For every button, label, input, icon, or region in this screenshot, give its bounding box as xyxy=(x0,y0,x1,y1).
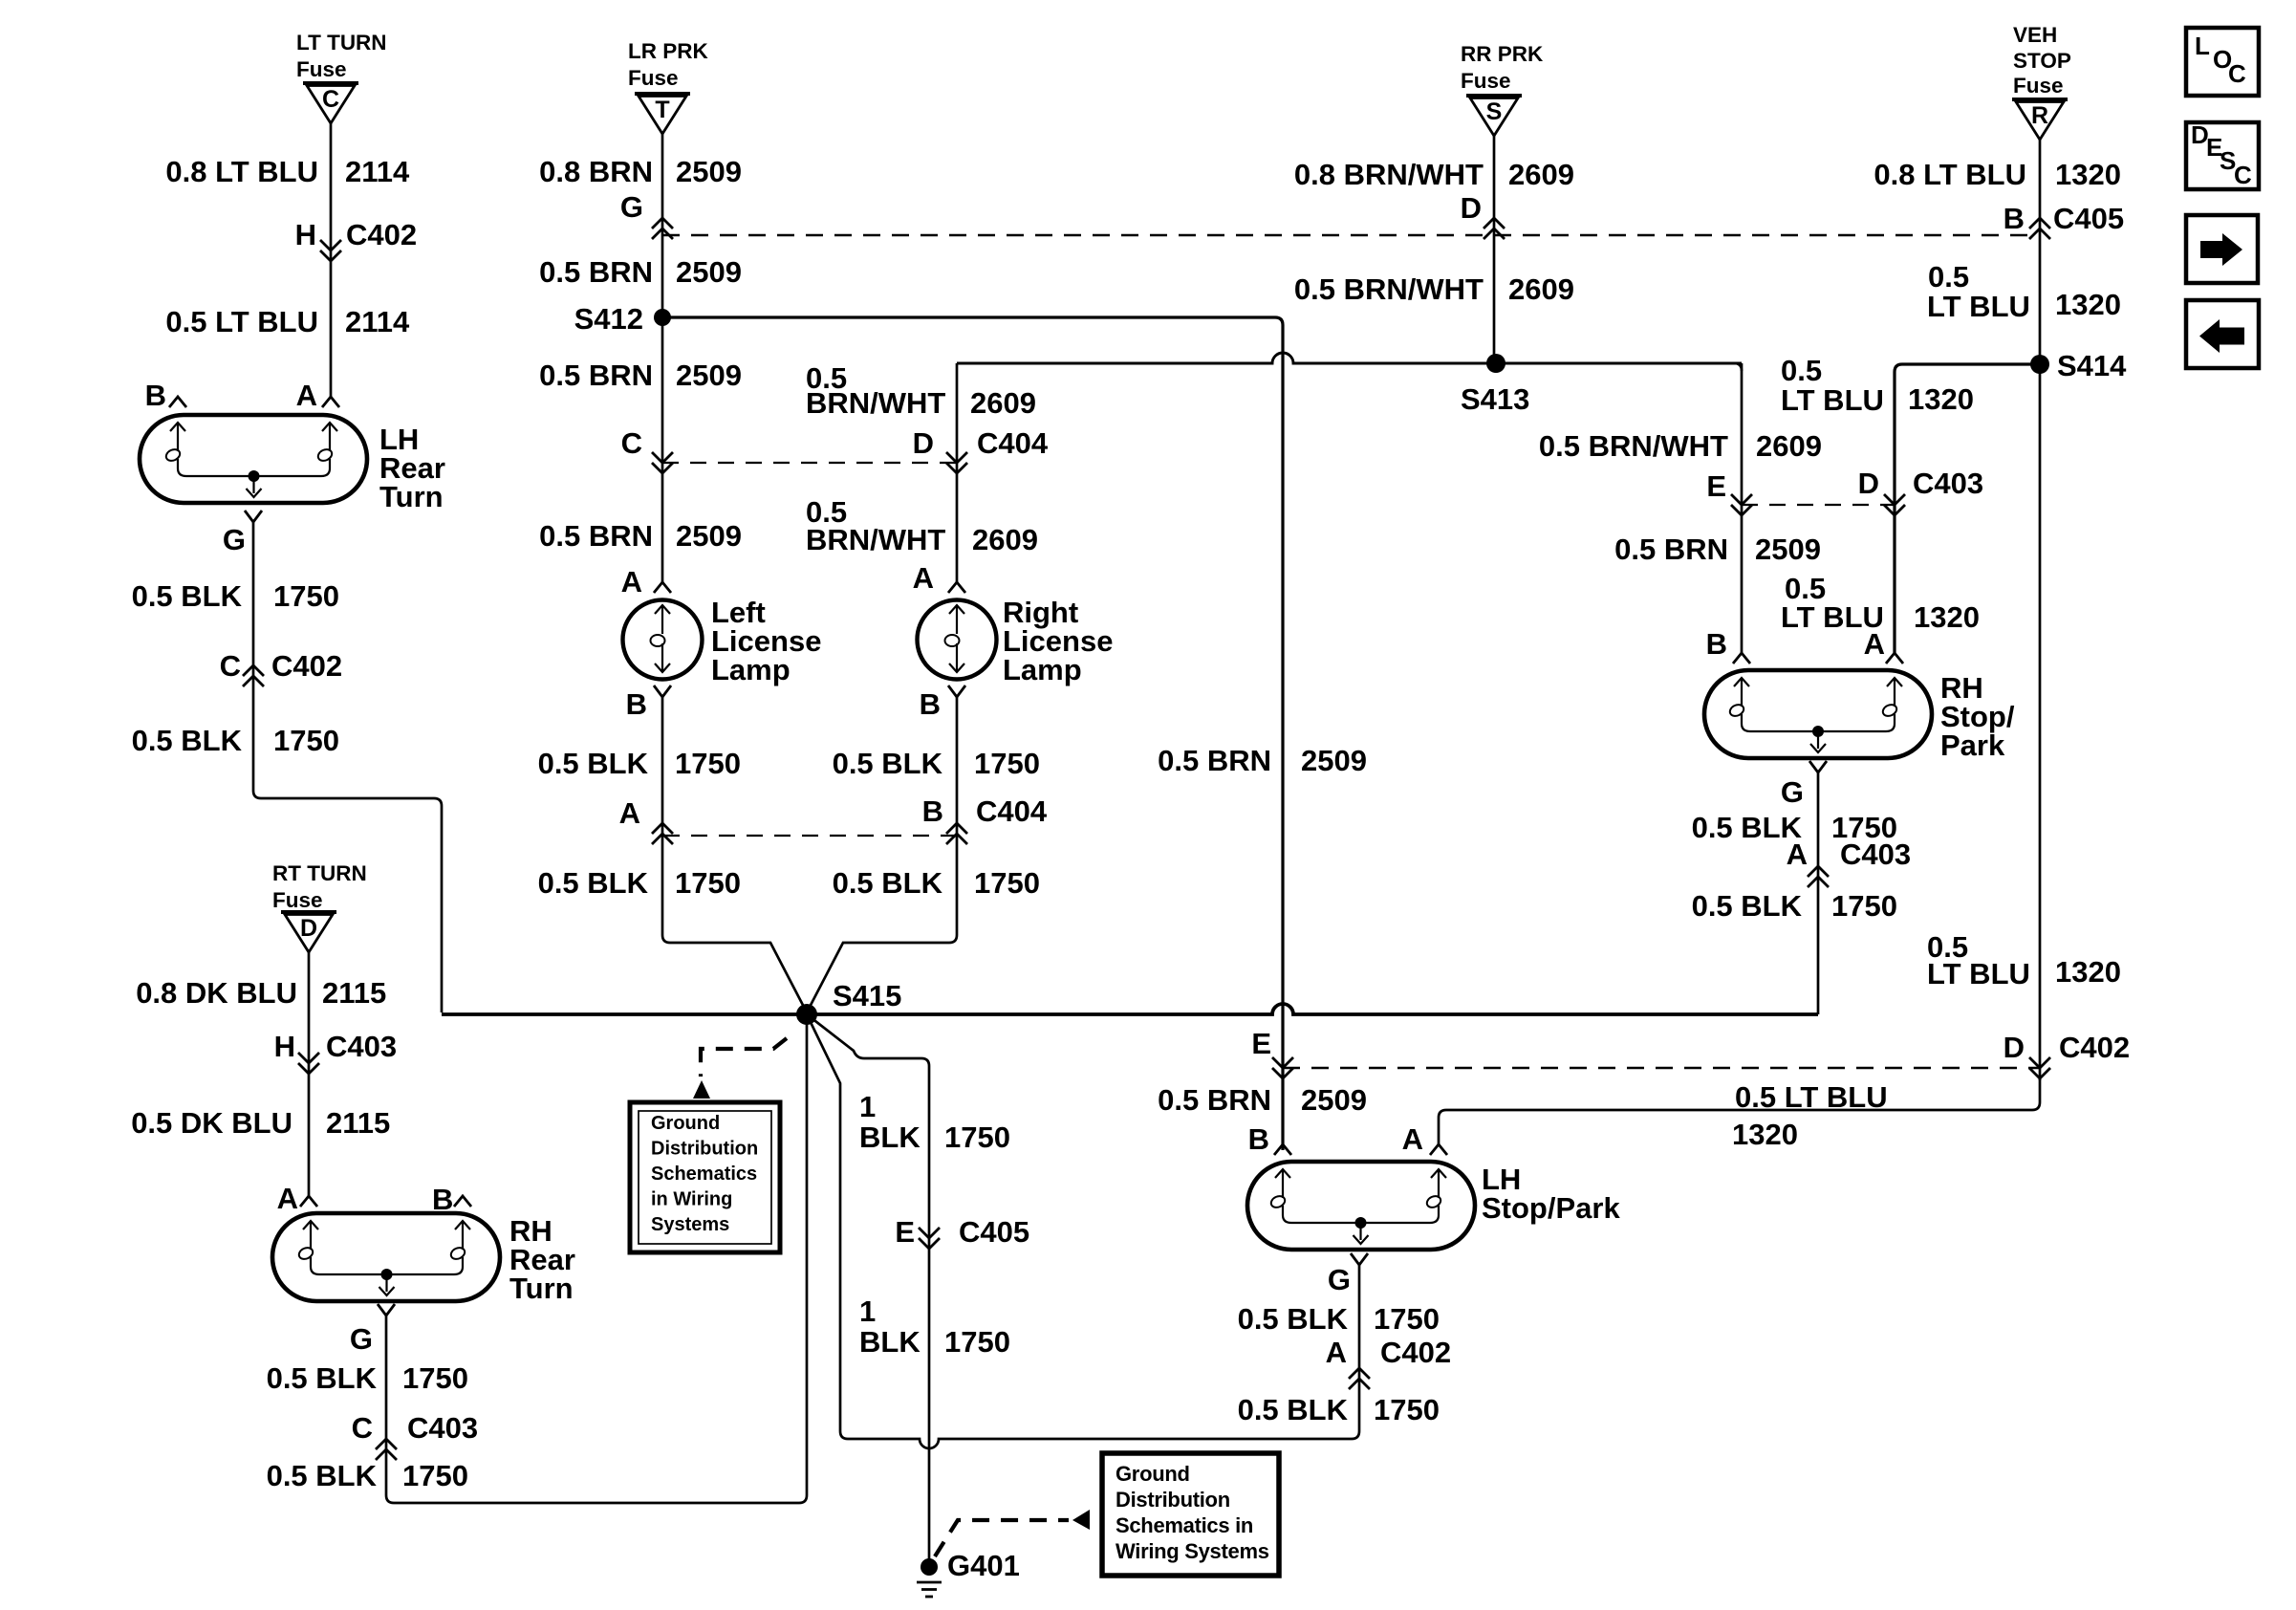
svg-text:C: C xyxy=(621,426,642,460)
connector C403 pin D (arrows) xyxy=(1858,467,1984,515)
svg-text:Turn: Turn xyxy=(509,1272,574,1305)
lamp RH Stop/Park xyxy=(1704,627,2015,809)
svg-text:A: A xyxy=(277,1182,298,1215)
label 0.5 BLK 1750 (lower) xyxy=(132,724,339,757)
svg-text:0.5 BRN: 0.5 BRN xyxy=(539,255,653,289)
wire 0.5 BLK 1750 (LH Rear Turn ground to S415) xyxy=(253,522,442,1012)
svg-text:RR PRK: RR PRK xyxy=(1461,42,1544,66)
label 0.8 LT BLU 1320 xyxy=(1874,158,2121,191)
svg-text:C403: C403 xyxy=(407,1411,478,1445)
svg-text:E: E xyxy=(1251,1027,1271,1060)
label 0.5 LT BLU 1320 (above S414) xyxy=(1927,260,2121,323)
svg-text:0.5 BLK: 0.5 BLK xyxy=(538,747,649,780)
svg-text:R: R xyxy=(2031,102,2048,129)
svg-text:0.5 BRN/WHT: 0.5 BRN/WHT xyxy=(1294,272,1484,306)
svg-text:2609: 2609 xyxy=(970,386,1036,420)
svg-text:Lamp: Lamp xyxy=(1003,653,1082,686)
svg-text:D: D xyxy=(300,915,317,942)
svg-text:2114: 2114 xyxy=(345,305,410,338)
label 0.5 LT BLU 1320 (S414 down) xyxy=(1927,930,2121,990)
svg-text:1320: 1320 xyxy=(2055,288,2121,321)
label 0.8 BRN 2509 xyxy=(539,155,742,188)
svg-text:0.8 BRN: 0.8 BRN xyxy=(539,155,653,188)
wire 1 BLK 1750 (S415 to G401) xyxy=(807,1014,929,1563)
label 0.5 BRN/WHT 2609 (below C405) xyxy=(1294,272,1574,306)
svg-text:1750: 1750 xyxy=(944,1325,1010,1359)
splice S415 bus line xyxy=(442,1004,1818,1014)
label 0.5 LT BLU 2114 xyxy=(165,305,410,338)
svg-text:H: H xyxy=(274,1030,295,1063)
svg-text:Fuse: Fuse xyxy=(1461,69,1511,93)
svg-text:Wiring Systems: Wiring Systems xyxy=(1116,1539,1269,1563)
label 0.5 BLK 1750 (upper) xyxy=(132,579,339,613)
label 0.5 BLK 1750 (RH SP upper) xyxy=(1692,811,1897,844)
svg-text:0.5 BRN: 0.5 BRN xyxy=(1158,1083,1271,1117)
lamp RH Rear Turn xyxy=(272,1182,575,1356)
svg-text:C: C xyxy=(322,86,339,113)
label 0.5 BLK 1750 (RH Rear lower) xyxy=(267,1459,468,1492)
svg-text:C402: C402 xyxy=(1380,1336,1451,1369)
label 1 BLK 1750 (upper) xyxy=(859,1090,1010,1154)
label 0.5 BLK 1750 (LH SP lower) xyxy=(1238,1393,1440,1426)
connector C404 pin D (arrows) xyxy=(913,426,1049,473)
svg-text:Ground: Ground xyxy=(651,1113,720,1134)
svg-text:B: B xyxy=(2004,202,2025,235)
svg-text:2509: 2509 xyxy=(676,359,742,392)
svg-text:H: H xyxy=(295,218,316,251)
svg-text:0.5 LT BLU: 0.5 LT BLU xyxy=(165,305,318,338)
svg-text:C403: C403 xyxy=(326,1030,397,1063)
label 0.5 DK BLU 2115 xyxy=(131,1106,390,1140)
svg-text:2115: 2115 xyxy=(322,976,386,1010)
svg-text:Fuse: Fuse xyxy=(2013,74,2064,98)
svg-text:A: A xyxy=(1326,1336,1347,1369)
svg-text:Stop/Park: Stop/Park xyxy=(1482,1191,1620,1225)
svg-text:C403: C403 xyxy=(1840,838,1911,871)
svg-text:1320: 1320 xyxy=(1732,1118,1798,1151)
svg-text:A: A xyxy=(913,561,934,595)
svg-text:in Wiring: in Wiring xyxy=(651,1189,732,1210)
label 0.8 BRN/WHT 2609 xyxy=(1294,158,1574,191)
connector C405 (dashed) xyxy=(662,234,2040,236)
svg-text:A: A xyxy=(1402,1122,1423,1156)
svg-text:G: G xyxy=(620,190,643,224)
svg-text:0.5 BLK: 0.5 BLK xyxy=(833,866,943,900)
svg-text:2609: 2609 xyxy=(1508,272,1574,306)
label 1 BLK 1750 (lower) xyxy=(859,1295,1010,1359)
label 0.5 BRN 2509 (below S412) xyxy=(539,359,742,392)
svg-text:D: D xyxy=(1858,467,1879,500)
svg-text:D: D xyxy=(913,426,934,460)
svg-text:1750: 1750 xyxy=(944,1120,1010,1154)
connector C405 pin D (arrows) xyxy=(1461,191,1505,239)
svg-text:B: B xyxy=(922,794,943,828)
fuse RR PRK (S) xyxy=(1461,42,1544,136)
connector C404 pin A (arrows) xyxy=(619,796,673,844)
svg-text:0.5 BRN: 0.5 BRN xyxy=(1158,744,1271,777)
connector C402 pin C (in-line arrows) xyxy=(220,649,343,686)
svg-text:2509: 2509 xyxy=(676,519,742,553)
svg-text:L: L xyxy=(2195,32,2210,60)
svg-text:1750: 1750 xyxy=(974,866,1040,900)
svg-text:E: E xyxy=(1706,469,1726,503)
label 0.5 LT BLU 1320 (bottom run) xyxy=(1732,1080,1888,1151)
svg-text:G: G xyxy=(1328,1263,1351,1296)
svg-text:1320: 1320 xyxy=(1908,382,1974,416)
svg-text:1750: 1750 xyxy=(402,1361,468,1395)
note box Ground Distribution Schematics in Wiring Systems (right) xyxy=(1102,1453,1279,1576)
label 0.5 LT BLU 1320 (branch lower) xyxy=(1781,572,1980,634)
svg-text:LT BLU: LT BLU xyxy=(1927,957,2030,990)
svg-text:Schematics in: Schematics in xyxy=(1116,1513,1253,1537)
label 0.5 BRN/WHT 2609 (to pin B) xyxy=(1539,429,1822,463)
svg-text:0.5 BLK: 0.5 BLK xyxy=(1238,1302,1349,1336)
svg-text:1750: 1750 xyxy=(1831,889,1897,923)
label 0.5 BLK 1750 (left license upper) xyxy=(538,747,741,780)
svg-text:0.5 BLK: 0.5 BLK xyxy=(132,579,243,613)
svg-text:Systems: Systems xyxy=(651,1214,729,1235)
svg-text:0.5 BRN: 0.5 BRN xyxy=(539,519,653,553)
label 0.5 BLK 1750 (RH SP lower) xyxy=(1692,889,1897,923)
wire 0.5 BLK 1750 (Left License ground to S415) xyxy=(662,697,807,1012)
svg-text:G401: G401 xyxy=(947,1549,1020,1582)
svg-text:Fuse: Fuse xyxy=(628,66,679,90)
svg-text:C: C xyxy=(352,1411,373,1445)
svg-text:A: A xyxy=(1864,627,1885,661)
svg-text:Schematics: Schematics xyxy=(651,1164,757,1185)
connector C405 pin G (arrows) xyxy=(620,190,673,239)
svg-text:B: B xyxy=(145,379,166,412)
wire S414 branch to RH Stop/Park pin A (0.5 LT BLU 1320) xyxy=(1895,364,2040,653)
svg-text:RT TURN: RT TURN xyxy=(272,861,367,885)
svg-text:S413: S413 xyxy=(1461,382,1529,416)
connector C403 pin H (in-line arrows) xyxy=(274,1030,398,1074)
connector C405 pin B (arrows) xyxy=(2004,202,2125,239)
label 0.5 BLK 1750 (left license lower) xyxy=(538,866,741,900)
svg-text:LT TURN: LT TURN xyxy=(296,31,387,54)
label 0.5 BRN 2509 (above LH Stop/Park) xyxy=(1158,1083,1367,1117)
connector C404 lower (dashed) xyxy=(663,835,957,837)
svg-text:Ground: Ground xyxy=(1116,1462,1190,1486)
connector C404 pin B (arrows) xyxy=(922,794,1048,844)
splice S412 xyxy=(574,302,671,336)
svg-text:0.5 BRN: 0.5 BRN xyxy=(539,359,653,392)
note box Ground Distribution Schematics in Wiring Systems (left) xyxy=(630,1102,780,1252)
fuse LR PRK (T) xyxy=(628,39,709,134)
splice S415 xyxy=(796,979,901,1025)
wire S413 branch line xyxy=(957,353,1742,363)
wire 0.5 LT BLU 1320 (S414 down to C402) xyxy=(2039,364,2042,1080)
svg-text:0.5 BLK: 0.5 BLK xyxy=(267,1361,378,1395)
svg-text:Distribution: Distribution xyxy=(651,1139,758,1160)
svg-text:C404: C404 xyxy=(976,794,1048,828)
connector C405 pin E (arrows) xyxy=(895,1215,1029,1249)
label 0.5 LT BLU 1320 (branch upper) xyxy=(1781,354,1974,417)
svg-text:B: B xyxy=(1248,1122,1269,1156)
connector C402 pin E (arrows) xyxy=(1251,1027,1293,1078)
svg-text:A: A xyxy=(1787,838,1808,871)
label 0.8 LT BLU 2114 xyxy=(165,155,410,188)
svg-text:D: D xyxy=(1461,191,1482,225)
wire 0.5 BLK 1750 (RH Stop/Park ground to S415) xyxy=(1817,772,1820,1014)
svg-text:C402: C402 xyxy=(2059,1031,2130,1064)
ground G401 xyxy=(917,1549,1020,1597)
svg-text:C: C xyxy=(220,649,241,683)
svg-text:0.8 LT BLU: 0.8 LT BLU xyxy=(1874,158,2026,191)
svg-text:LT BLU: LT BLU xyxy=(1927,290,2030,323)
connector C402 pin A (arrows) xyxy=(1326,1336,1452,1389)
svg-text:VEH: VEH xyxy=(2013,23,2057,47)
svg-text:C405: C405 xyxy=(2053,202,2124,235)
icon box LOC xyxy=(2186,28,2259,96)
svg-text:1750: 1750 xyxy=(402,1459,468,1492)
svg-text:0.5 LT BLU: 0.5 LT BLU xyxy=(1735,1080,1888,1114)
svg-text:BRN/WHT: BRN/WHT xyxy=(806,386,945,420)
connector C403 pin E (arrows) xyxy=(1706,469,1752,515)
lamp LH Rear Turn xyxy=(140,379,445,556)
svg-text:Park: Park xyxy=(1940,729,2005,762)
svg-text:C: C xyxy=(2234,161,2252,189)
svg-text:0.5 BLK: 0.5 BLK xyxy=(132,724,243,757)
connector C402 pin H (in-line arrows) xyxy=(295,218,418,261)
svg-text:C404: C404 xyxy=(977,426,1049,460)
svg-text:D: D xyxy=(2004,1031,2025,1064)
svg-text:B: B xyxy=(626,687,647,721)
svg-text:0.5 BLK: 0.5 BLK xyxy=(833,747,943,780)
svg-text:2609: 2609 xyxy=(1508,158,1574,191)
svg-text:0.5 BRN: 0.5 BRN xyxy=(1614,533,1728,566)
label 0.5 BLK 1750 (right license lower) xyxy=(833,866,1040,900)
label 0.5 BRN/WHT 2609 (lower) xyxy=(806,495,1038,556)
lamp LH Stop/Park xyxy=(1247,1122,1620,1296)
wire 0.5 BLK 1750 (RH Rear Turn ground to S415) xyxy=(386,1014,807,1503)
fuse RT TURN (D) xyxy=(281,912,336,952)
label 0.5 BRN/WHT 2609 (upper) xyxy=(806,361,1036,420)
svg-text:0.5 BLK: 0.5 BLK xyxy=(267,1459,378,1492)
connector C403 pin C (in-line arrows) xyxy=(352,1411,479,1460)
svg-text:0.5 BLK: 0.5 BLK xyxy=(1238,1393,1349,1426)
label 0.5 BRN 2509 (above Left License) xyxy=(539,519,742,553)
svg-text:0.8 DK BLU: 0.8 DK BLU xyxy=(136,976,297,1010)
wire 0.5 BRN/WHT 2609 (S413 to RH Stop/Park pin B) xyxy=(1734,363,1742,653)
svg-text:0.5: 0.5 xyxy=(1781,354,1822,387)
wire 0.8 DK BLU 2115 (RT TURN fuse to C403) xyxy=(308,952,311,1196)
svg-text:2115: 2115 xyxy=(326,1106,390,1140)
svg-text:1750: 1750 xyxy=(1374,1393,1440,1426)
svg-text:S414: S414 xyxy=(2057,349,2127,382)
svg-text:2509: 2509 xyxy=(676,155,742,188)
svg-text:0.8 BRN/WHT: 0.8 BRN/WHT xyxy=(1294,158,1484,191)
svg-text:STOP: STOP xyxy=(2013,49,2071,73)
svg-text:C403: C403 xyxy=(1913,467,1983,500)
wire S412 feed to LH Stop/Park (0.5 BRN 2509) xyxy=(662,317,1283,1150)
svg-text:LT BLU: LT BLU xyxy=(1781,383,1884,417)
svg-text:1750: 1750 xyxy=(675,866,741,900)
svg-text:0.5: 0.5 xyxy=(1928,260,1969,294)
label 0.5 BRN 2509 (to pin B lower) xyxy=(1614,533,1821,566)
svg-text:1320: 1320 xyxy=(2055,955,2121,989)
svg-text:2509: 2509 xyxy=(1301,744,1367,777)
connector C402 (dashed) xyxy=(1283,1067,2040,1069)
wire 0.8/0.5 BRN/WHT 2609 (RR PRK fuse to S413) xyxy=(1493,136,1496,363)
svg-text:2609: 2609 xyxy=(972,523,1038,556)
wire 0.5 BRN/WHT 2609 (S413 to Right License Lamp) xyxy=(956,363,959,582)
svg-text:Distribution: Distribution xyxy=(1116,1488,1230,1512)
splice S414 xyxy=(2030,349,2127,382)
svg-text:BRN/WHT: BRN/WHT xyxy=(806,523,945,556)
icon box DESC xyxy=(2186,120,2259,189)
svg-text:G: G xyxy=(350,1322,373,1356)
svg-text:2609: 2609 xyxy=(1756,429,1822,463)
label 0.5 BRN 2509 (long feed wire) xyxy=(1158,744,1367,777)
svg-text:1320: 1320 xyxy=(2055,158,2121,191)
connector C402 pin D (arrows) xyxy=(2004,1031,2131,1078)
svg-text:2509: 2509 xyxy=(1301,1083,1367,1117)
svg-text:C402: C402 xyxy=(346,218,417,251)
svg-text:G: G xyxy=(223,523,246,556)
label 0.5 BRN 2509 (above S412) xyxy=(539,255,742,289)
svg-text:B: B xyxy=(1706,627,1727,661)
wire 0.8 LT BLU 2114 (LT TURN fuse to C402) xyxy=(330,123,333,397)
svg-text:2509: 2509 xyxy=(676,255,742,289)
svg-text:B: B xyxy=(432,1183,453,1216)
svg-text:2114: 2114 xyxy=(345,155,410,188)
svg-text:Fuse: Fuse xyxy=(272,888,323,912)
svg-text:A: A xyxy=(296,379,317,412)
svg-text:2509: 2509 xyxy=(1755,533,1821,566)
svg-text:C402: C402 xyxy=(271,649,342,683)
svg-text:S: S xyxy=(1486,98,1503,125)
svg-text:0.5 BLK: 0.5 BLK xyxy=(1692,889,1803,923)
connector C403 (dashed) xyxy=(1742,504,1895,506)
svg-text:1750: 1750 xyxy=(273,579,339,613)
label 0.5 BLK 1750 (RH Rear upper) xyxy=(267,1361,468,1395)
svg-text:1320: 1320 xyxy=(1914,600,1980,634)
label RT TURN Fuse xyxy=(272,861,367,912)
svg-text:Fuse: Fuse xyxy=(296,57,347,81)
svg-text:LR PRK: LR PRK xyxy=(628,39,709,63)
svg-text:E: E xyxy=(895,1215,915,1249)
label 0.5 BLK 1750 (right license upper) xyxy=(833,747,1040,780)
fuse LT TURN (C) xyxy=(296,31,387,123)
svg-text:S415: S415 xyxy=(833,979,901,1012)
svg-text:A: A xyxy=(621,565,642,598)
leader dashed arrow (G401 to note box) xyxy=(935,1510,1090,1556)
leader dashed arrow (S415 to note box) xyxy=(693,1038,787,1099)
connector C404 upper (dashed) xyxy=(662,462,957,464)
svg-text:1750: 1750 xyxy=(675,747,741,780)
wire 0.5 BLK 1750 (Right License ground to S415) xyxy=(807,697,957,1012)
svg-text:T: T xyxy=(655,97,669,123)
svg-text:1750: 1750 xyxy=(1374,1302,1440,1336)
svg-text:B: B xyxy=(920,687,941,721)
svg-text:S412: S412 xyxy=(574,302,643,336)
svg-text:0.5 BLK: 0.5 BLK xyxy=(538,866,649,900)
label 0.5 BLK 1750 (LH SP upper) xyxy=(1238,1302,1440,1336)
splice S413 xyxy=(1461,354,1529,416)
wire 0.5 BLK 1750 (LH Stop/Park ground to S415) xyxy=(807,1014,1359,1448)
svg-text:Lamp: Lamp xyxy=(711,653,791,686)
fuse VEH STOP (R) xyxy=(2012,23,2071,140)
svg-text:1: 1 xyxy=(859,1295,876,1328)
svg-text:A: A xyxy=(619,796,640,830)
svg-text:0.5 DK BLU: 0.5 DK BLU xyxy=(131,1106,292,1140)
svg-text:BLK: BLK xyxy=(859,1325,921,1359)
svg-text:G: G xyxy=(1781,775,1804,809)
wire 0.5 LT BLU 1320 (C402 to LH Stop/Park pin A) xyxy=(1439,1078,2040,1144)
lamp Right License Lamp xyxy=(913,561,1114,721)
svg-text:Turn: Turn xyxy=(379,480,444,513)
svg-text:1750: 1750 xyxy=(974,747,1040,780)
wire 0.8 LT BLU 1320 (VEH STOP fuse to S414) xyxy=(2039,140,2042,364)
label 0.8 DK BLU 2115 xyxy=(136,976,386,1010)
icon box arrow right xyxy=(2186,215,2258,283)
svg-text:0.8 LT BLU: 0.8 LT BLU xyxy=(165,155,318,188)
svg-text:BLK: BLK xyxy=(859,1120,921,1154)
connector C404 pin C (arrows) xyxy=(621,426,673,473)
connector C403 pin A (arrows) xyxy=(1787,838,1912,887)
svg-text:0.5 BRN/WHT: 0.5 BRN/WHT xyxy=(1539,429,1728,463)
svg-text:C: C xyxy=(2228,59,2246,88)
icon box arrow left xyxy=(2186,300,2259,368)
svg-text:1750: 1750 xyxy=(273,724,339,757)
svg-text:C405: C405 xyxy=(959,1215,1029,1249)
lamp Left License Lamp xyxy=(621,565,822,721)
svg-text:1: 1 xyxy=(859,1090,876,1123)
wire 0.8/0.5 BRN 2509 (LR PRK fuse down to Left License Lamp) xyxy=(661,134,664,582)
